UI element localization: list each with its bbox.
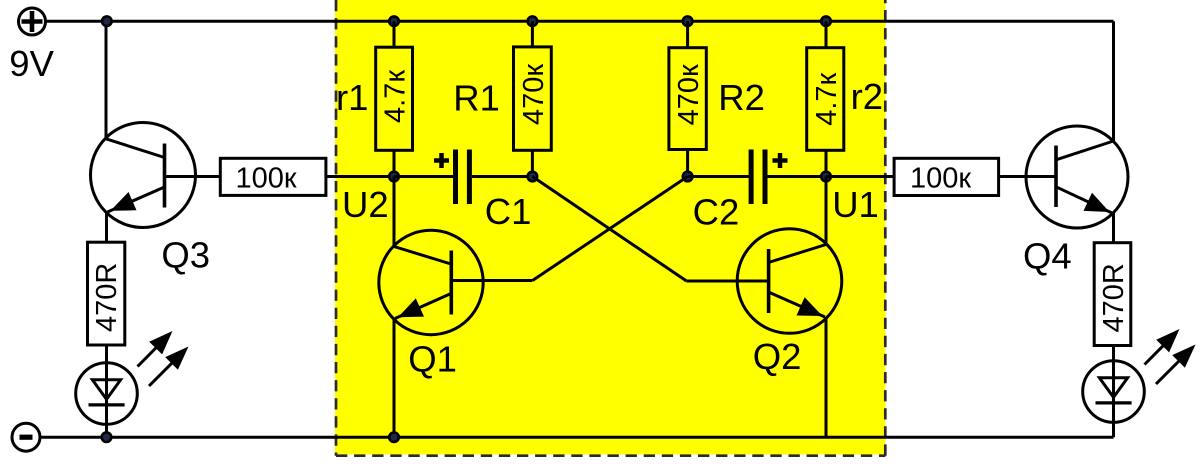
svg-text:100к: 100к: [910, 163, 971, 195]
wire U2 to C1: [394, 175, 454, 178]
wire node A to Q2 base (diagonal): [532, 177, 686, 282]
wire 470R to LED D2: [1112, 346, 1115, 438]
wire rail to R2: [686, 21, 689, 48]
transistor Q1 body: [379, 230, 483, 334]
wire bottom ground rail: [40, 436, 1114, 439]
resistor R2 (470k): [669, 48, 706, 150]
wire node B to C2: [688, 175, 752, 178]
wire 100k to Q4 base: [999, 175, 1056, 178]
junction on top rail at Q3 branch: [102, 16, 112, 26]
svg-text:Q4: Q4: [1023, 235, 1072, 276]
capacitor C2 polarity plus: [773, 158, 788, 163]
transistor Q3 emitter arrow: [111, 192, 137, 211]
transistor Q1 emitter arrow: [398, 298, 424, 317]
junction on ground rail at Q1: [389, 432, 399, 442]
svg-text:Q2: Q2: [753, 336, 802, 377]
resistor 470R left: [88, 242, 125, 345]
transistor Q2 collector lead: [768, 245, 826, 263]
LED D2 cathode bar: [1096, 401, 1132, 404]
svg-text:470к: 470к: [518, 64, 550, 125]
node A junction (R1/C1 to Q2 base): [528, 172, 538, 182]
LED D1 body: [76, 363, 138, 425]
wire U1 to Q2 collector: [825, 177, 828, 246]
capacitor C2 plate right: [763, 150, 768, 205]
transistor Q1 base bar: [449, 251, 453, 315]
wire r1 to node U2: [393, 150, 396, 176]
junction on top rail at R1: [528, 16, 538, 26]
wire C2 to node U1: [768, 175, 827, 178]
junction on top rail at R2: [683, 16, 693, 26]
svg-text:C1: C1: [485, 191, 532, 232]
resistor R1 (470k): [514, 47, 552, 150]
transistor Q4 emitter lead: [1056, 187, 1112, 213]
svg-text:9V: 9V: [9, 43, 54, 84]
wire C1 to node A: [472, 175, 533, 178]
wire top supply rail: [46, 20, 1114, 23]
transistor Q4 body: [1026, 126, 1128, 228]
wire 9V rail to Q3 collector: [105, 21, 108, 139]
wire U1 to 100k right: [826, 175, 895, 178]
svg-text:4.7к: 4.7к: [380, 70, 412, 123]
transistor Q4 emitter arrow: [1084, 193, 1110, 212]
svg-text:U1: U1: [832, 184, 879, 225]
transistor Q1 collector lead: [394, 247, 451, 265]
wire top rail drop to Q4 collector: [1112, 21, 1115, 142]
node U1 junction: [821, 172, 831, 182]
capacitor C2 plate left: [749, 150, 754, 205]
LED D2 anode triangle: [1099, 378, 1127, 398]
highlighted multivibrator region (yellow): [335, 0, 886, 455]
node U2 junction: [389, 172, 399, 182]
LED D1 cathode bar: [89, 403, 125, 406]
svg-text:470к: 470к: [673, 64, 705, 125]
svg-text:Q1: Q1: [408, 339, 457, 380]
junction on top rail at r2: [821, 16, 831, 26]
LED D2 light arrow 1: [1145, 336, 1174, 365]
transistor Q3 base bar: [163, 144, 167, 208]
svg-text:100к: 100к: [235, 162, 296, 194]
wire 100k to node U2: [326, 175, 394, 178]
transistor Q4 base bar: [1054, 146, 1058, 208]
svg-text:470R: 470R: [1098, 263, 1130, 332]
transistor Q1 emitter lead: [395, 294, 451, 319]
LED D1 anode triangle: [92, 380, 120, 400]
transistor Q2 emitter lead: [768, 292, 825, 317]
svg-text:U2: U2: [342, 184, 389, 225]
wire R1 to node A: [531, 150, 534, 176]
transistor Q3 emitter lead: [108, 187, 165, 212]
junction on ground rail at LED D1: [102, 432, 112, 442]
svg-text:4.7к: 4.7к: [811, 72, 843, 125]
junction on top rail at r1: [389, 16, 399, 26]
capacitor C1 polarity plus: [434, 158, 449, 163]
transistor Q2 emitter arrow: [797, 297, 823, 316]
svg-text:470R: 470R: [91, 263, 123, 332]
wire Q4 emitter to 470R: [1112, 213, 1115, 243]
svg-text:C2: C2: [693, 192, 740, 233]
svg-text:R2: R2: [718, 77, 765, 118]
wire rail to r2: [825, 21, 828, 48]
node B junction (R2/C2 to Q1 base): [683, 172, 693, 182]
LED D2 body: [1083, 361, 1145, 423]
wire r2 to node U1: [825, 150, 828, 176]
wire Q1 base horizontal segment: [451, 279, 533, 282]
transistor Q3 body: [91, 123, 196, 228]
wire 470R to LED D1: [105, 345, 108, 437]
LED D1 light arrow 2: [149, 353, 182, 386]
wire Q3 emitter to 470R: [105, 212, 108, 243]
wire Q1 emitter to ground rail: [393, 319, 396, 438]
wire rail to R1: [531, 21, 534, 47]
battery negative terminal: [12, 423, 40, 451]
wire U2 to Q1 collector: [393, 177, 396, 248]
capacitor C1 plate left: [453, 150, 458, 205]
wire Q2 emitter to ground rail: [825, 317, 828, 437]
svg-text:Q3: Q3: [161, 234, 210, 275]
wire Q2 base horizontal segment: [687, 280, 769, 283]
transistor Q3 base lead wire: [165, 175, 221, 178]
svg-text:R1: R1: [453, 77, 500, 118]
svg-text:r1: r1: [336, 77, 368, 118]
dashed border of highlighted region: [336, 0, 885, 456]
LED D2 light arrow 2: [1156, 351, 1189, 384]
transistor Q3 collector lead: [106, 139, 165, 158]
resistor 470R right: [1094, 243, 1131, 346]
transistor Q2 base bar: [767, 249, 771, 313]
resistor 100k left: [220, 158, 326, 195]
LED D1 light arrow 1: [138, 338, 167, 367]
capacitor C1 plate right: [467, 150, 472, 205]
battery positive terminal: [19, 8, 46, 35]
transistor Q4 collector lead: [1056, 141, 1114, 160]
wire R2 to node B: [686, 150, 689, 177]
resistor 100k right: [894, 158, 999, 195]
resistor r1 (4.7k): [376, 47, 413, 150]
resistor r2 (4.7k): [807, 48, 844, 151]
wire rail to r1: [393, 21, 396, 48]
wire node B to Q1 base (diagonal): [533, 177, 688, 281]
svg-text:r2: r2: [851, 76, 883, 117]
transistor Q2 body: [737, 229, 842, 334]
